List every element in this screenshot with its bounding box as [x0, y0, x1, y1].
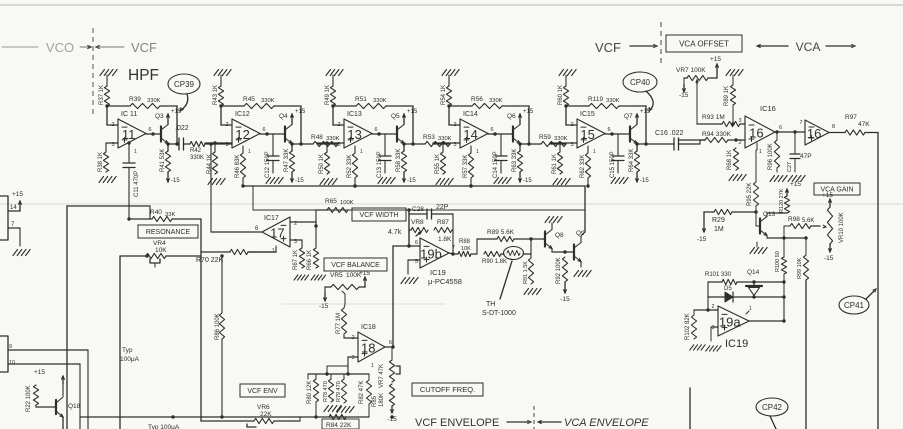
VCF ENV box: [240, 384, 285, 397]
wire feedback row right: [519, 105, 529, 107]
ground above R43: [214, 70, 231, 76]
ground below C27: [788, 176, 805, 182]
ellipse CP42: [756, 398, 788, 416]
pot VR7 47K: [389, 360, 394, 382]
ellipse CP40: [623, 72, 657, 92]
wire Q9 emitter to ground: [580, 262, 582, 268]
resistor R94 330K: [679, 139, 706, 141]
svg-text:1: 1: [749, 306, 752, 312]
svg-text:16: 16: [807, 126, 821, 141]
svg-text:R52 33K: R52 33K: [347, 155, 353, 178]
svg-text:-15: -15: [679, 92, 689, 99]
wire Q8 emitter row: [551, 249, 553, 253]
svg-text:11: 11: [122, 127, 136, 142]
svg-text:19a: 19a: [719, 315, 741, 330]
svg-text:5.6K: 5.6K: [802, 218, 814, 224]
svg-text:VR7 47K: VR7 47K: [379, 364, 385, 388]
svg-text:C16 .022: C16 .022: [655, 130, 684, 137]
svg-text:Q4: Q4: [279, 113, 288, 120]
vertical wire x120: [119, 256, 121, 429]
ground above R89b: [726, 70, 743, 76]
svg-text:CP42: CP42: [762, 403, 783, 412]
wire emitter node: [519, 144, 521, 152]
resistor R98 5.6K: [790, 223, 811, 228]
wire R85 to -15: [391, 406, 393, 413]
envelope dashed separator: [533, 406, 535, 429]
wire D5 row: [708, 296, 725, 298]
resistor R57 33K to bus: [470, 146, 472, 153]
ground pin7: [13, 250, 30, 256]
svg-text:12: 12: [235, 127, 249, 142]
resistor R44 1K: [214, 143, 216, 152]
resistor R58 33K: [401, 151, 406, 172]
wire feedback row: [107, 105, 130, 107]
arrow right of VCA: [826, 45, 852, 47]
capacitor C16 .022: [637, 143, 674, 145]
svg-text:R38 1K: R38 1K: [98, 152, 104, 172]
VCF/VCA dashed separator: [660, 22, 662, 66]
wire VR7 left to -15: [684, 77, 687, 79]
arrow CP39 to +15 node: [181, 94, 188, 110]
resistor R55 1K: [442, 143, 444, 152]
svg-text:R97: R97: [845, 114, 857, 121]
wire pin2: [708, 309, 718, 311]
CUTOFF FREQ box: [412, 383, 483, 396]
svg-text:33K: 33K: [165, 212, 175, 218]
wire left column: [707, 282, 709, 310]
wire envelope row: [80, 416, 369, 418]
wire feedback row: [221, 105, 244, 107]
svg-text:-15: -15: [407, 178, 416, 184]
svg-text:C14 150P: C14 150P: [493, 151, 499, 178]
resistor R38 1K: [106, 142, 118, 144]
ground IC19b: [401, 278, 418, 284]
wire emitter to R 330K: [520, 143, 541, 145]
arrow from boundary to VCF: [96, 45, 100, 48]
wire non-inverting input: [433, 142, 460, 144]
VCO/VCF dashed separator: [92, 28, 94, 117]
svg-text:330K: 330K: [438, 136, 452, 142]
wire net right: [530, 239, 532, 254]
svg-text:R119: R119: [588, 96, 603, 103]
svg-text:-15: -15: [171, 178, 180, 184]
svg-text:VR5: VR5: [330, 272, 343, 279]
resistor R22 100K: [33, 385, 38, 405]
IC box fragment (top): [0, 196, 8, 240]
wire op-amp output: [487, 133, 489, 136]
transistor Q13: [756, 225, 760, 227]
transistor Q9: [573, 245, 575, 260]
arrow into VCF boundary: [80, 46, 90, 48]
svg-text:13: 13: [347, 127, 361, 142]
svg-text:3: 3: [711, 325, 714, 331]
svg-text:22P: 22P: [436, 204, 449, 211]
vertical wire x201: [200, 219, 202, 421]
wire VR5 -15: [325, 286, 331, 288]
ground Q8 collector: [545, 217, 562, 223]
svg-text:9: 9: [9, 344, 12, 350]
svg-text:R40: R40: [150, 209, 162, 216]
svg-text:VCA OFFSET: VCA OFFSET: [679, 39, 729, 48]
resistor R85 180K: [389, 384, 394, 406]
wire emitter to R 330K: [404, 143, 425, 145]
svg-text:6: 6: [148, 127, 151, 133]
resistor R49 1K: [330, 86, 335, 106]
svg-text:R93 1M: R93 1M: [702, 114, 725, 121]
svg-text:R87: R87: [437, 219, 449, 226]
svg-text:VCA: VCA: [796, 40, 821, 54]
svg-text:C15 150P: C15 150P: [610, 151, 616, 178]
svg-text:6: 6: [607, 127, 610, 133]
svg-text:-15: -15: [697, 236, 707, 243]
resistor R67 1K: [299, 248, 304, 268]
wire pin3 to ground: [711, 326, 718, 328]
resistor R102 82K: [694, 309, 708, 311]
wire IC18 out: [385, 346, 393, 348]
scan fold segment: [282, 303, 445, 305]
arrow VCF to boundary: [630, 45, 654, 47]
svg-text:C11 470P: C11 470P: [134, 171, 140, 197]
svg-text:R88: R88: [459, 239, 471, 245]
resistor R47 33K: [289, 151, 294, 172]
resistor R48 330K: [313, 141, 338, 146]
wire inverting input: [448, 106, 450, 125]
resistor R46 83K to bus: [242, 146, 244, 153]
svg-text:R29: R29: [712, 217, 725, 224]
svg-text:16: 16: [749, 126, 763, 141]
svg-text:17: 17: [270, 226, 284, 241]
resistor R65 100K: [327, 207, 348, 212]
wire: [2, 46, 38, 48]
svg-text:100μA: 100μA: [120, 356, 140, 363]
wire emitter node: [636, 144, 638, 152]
svg-text:VR4: VR4: [153, 240, 166, 247]
svg-text:R47 33K: R47 33K: [284, 149, 290, 172]
op-amp IC19b: [420, 238, 449, 268]
svg-text:1: 1: [476, 149, 479, 155]
resistor R54 1K: [446, 86, 451, 106]
svg-text:-15: -15: [295, 178, 304, 184]
resistor R80 12K: [315, 374, 317, 379]
resistor R43 1K: [218, 86, 223, 106]
ground below R44: [208, 179, 225, 185]
wire ladder top row: [308, 373, 369, 375]
wire to next stage input: [317, 143, 338, 145]
ground above R37: [100, 70, 117, 76]
wire IC17 -in to node: [290, 221, 316, 223]
node R37/feedback: [105, 104, 108, 107]
wire R98 left: [784, 225, 790, 227]
op-amp IC18: [358, 332, 385, 362]
svg-text:6: 6: [374, 127, 377, 133]
svg-text:IC19: IC19: [430, 268, 446, 277]
svg-text:IC 11: IC 11: [121, 111, 137, 118]
svg-text:VCF ENVELOPE: VCF ENVELOPE: [415, 417, 499, 429]
wire op-amp output: [259, 133, 261, 136]
op-amp IC11: [118, 119, 146, 148]
capacitor C14 150P: [500, 134, 502, 156]
resistor R37 1K: [104, 86, 109, 106]
wire inverting input: [106, 106, 108, 125]
ellipse CP39: [168, 74, 200, 94]
wire +15 to Q18 collector: [62, 376, 64, 384]
op-amp IC16a: [745, 116, 775, 148]
svg-text:3: 3: [351, 355, 354, 361]
vertical wire bus to width net: [408, 210, 410, 246]
svg-text:VCF: VCF: [595, 40, 621, 55]
resistor R70 22K: [230, 249, 248, 254]
ground below C13: [378, 178, 395, 184]
wire inverting input: [332, 106, 334, 125]
scan top border line: [0, 4, 903, 6]
svg-text:+15: +15: [790, 181, 801, 188]
resistor R78 470: [330, 374, 332, 379]
svg-text:Typ 100μA: Typ 100μA: [148, 424, 180, 429]
svg-text:R68 1K: R68 1K: [727, 150, 733, 170]
svg-text:1.8K: 1.8K: [438, 236, 452, 243]
svg-text:VCO: VCO: [46, 40, 74, 55]
wire feedback drop: [645, 106, 647, 144]
wire x806 down: [805, 280, 807, 429]
ground below C12: [266, 178, 283, 184]
resistor R53 330K: [425, 141, 450, 146]
svg-text:C28: C28: [412, 206, 424, 213]
wire Q18 emitter down: [62, 417, 64, 429]
resistor R59 330K: [541, 141, 566, 146]
RESONANCE box: [138, 225, 198, 238]
svg-text:R120 27K: R120 27K: [779, 188, 785, 213]
svg-text:7: 7: [452, 245, 455, 251]
svg-text:2: 2: [711, 304, 714, 310]
svg-text:R96 100K: R96 100K: [768, 143, 774, 170]
ground above R54: [442, 70, 459, 76]
svg-text:1: 1: [371, 363, 374, 369]
VCF BALANCE box: [324, 258, 387, 271]
svg-text:-15: -15: [319, 303, 329, 310]
wire IC19a out: [749, 320, 784, 322]
resistor R66 1K: [315, 226, 317, 248]
svg-text:+15: +15: [822, 192, 833, 199]
svg-text:R60 1K: R60 1K: [558, 85, 564, 105]
resistor R88 10K: [458, 251, 471, 256]
wire Q9 collector to bus: [580, 236, 582, 243]
vertical wire x690: [689, 388, 691, 429]
node R49/feedback: [331, 104, 334, 107]
wire IC16a out: [775, 131, 805, 133]
svg-text:Q3: Q3: [155, 113, 164, 120]
svg-text:10: 10: [9, 360, 15, 366]
svg-text:IC14: IC14: [463, 111, 478, 118]
svg-text:R100 50: R100 50: [775, 251, 781, 272]
resistor R41 53K: [165, 151, 170, 172]
wire IC17 output up to signal node: [211, 231, 262, 233]
wire emitter to R 330K: [292, 143, 313, 145]
wire IC16b out: [829, 132, 845, 134]
svg-text:R77 1M: R77 1M: [336, 313, 342, 334]
wire op-amp output: [604, 133, 606, 136]
wire width net right: [452, 229, 453, 231]
wire feedback row right: [636, 105, 646, 107]
svg-text:330K: 330K: [373, 98, 387, 104]
svg-text:R65: R65: [325, 198, 337, 205]
pot VR10 100K: [827, 207, 832, 244]
wire R101 row: [708, 281, 722, 283]
wire R65 left to IC17: [316, 209, 327, 211]
wire VR5 +15: [359, 286, 365, 288]
svg-text:IC16: IC16: [760, 104, 776, 113]
svg-text:330K: 330K: [606, 98, 620, 104]
svg-text:R99 10K: R99 10K: [797, 257, 803, 279]
ground below C15: [611, 178, 628, 184]
resistor R89 1K (vca): [730, 85, 735, 105]
wire collector to +15: [636, 121, 638, 125]
resistor R95 22K: [755, 150, 757, 182]
svg-text:R62 33K: R62 33K: [580, 155, 586, 178]
resistor R60 1K: [563, 86, 568, 106]
ground below R96: [770, 176, 787, 182]
svg-text:R67 1K: R67 1K: [293, 250, 299, 270]
ground R102: [690, 345, 705, 350]
svg-text:22K: 22K: [260, 411, 272, 418]
wire VR7 wiper down: [696, 84, 698, 124]
svg-text:3: 3: [738, 118, 741, 124]
svg-text:R64 33K: R64 33K: [629, 149, 635, 172]
capacitor C28 22P: [409, 213, 427, 215]
wire collector to +15: [167, 121, 169, 125]
svg-text:VCF WIDTH: VCF WIDTH: [360, 212, 399, 219]
wire to next stage input: [550, 143, 566, 145]
VCA OFFSET box: [666, 35, 742, 52]
svg-text:R61 1K: R61 1K: [552, 154, 558, 174]
svg-text:R37 1K: R37 1K: [99, 85, 105, 105]
ground below R91: [524, 289, 541, 295]
wire feedback row: [449, 105, 472, 107]
svg-text:IC19: IC19: [725, 338, 748, 350]
svg-text:14: 14: [463, 127, 477, 142]
wire IC19b pin5 to ground: [408, 259, 420, 261]
capacitor C11 470P: [128, 143, 130, 162]
svg-text:IC12: IC12: [235, 111, 250, 118]
svg-text:+15: +15: [359, 270, 370, 277]
pin 1 tick: [756, 143, 758, 150]
resistor R50 1K: [326, 143, 328, 152]
svg-text:R84 22K: R84 22K: [326, 422, 352, 429]
node R54/feedback: [447, 104, 450, 107]
svg-text:R59: R59: [539, 134, 551, 141]
wire feedback drop: [300, 106, 302, 144]
resistor R120 27K: [784, 196, 789, 213]
transistor Q3: [160, 127, 162, 142]
wire inverting input: [220, 106, 222, 125]
wire VR10 -15: [829, 244, 831, 252]
svg-text:+15: +15: [710, 56, 721, 63]
VCF WIDTH box: [352, 208, 406, 221]
op-amp IC13: [344, 119, 372, 148]
wire Q13 emitter row: [766, 236, 768, 239]
svg-text:2: 2: [453, 122, 456, 128]
svg-text:R91 1.5K: R91 1.5K: [523, 261, 529, 284]
capacitor C13 150P: [384, 134, 386, 156]
svg-text:R51: R51: [355, 96, 367, 103]
transistor Q4: [284, 127, 286, 142]
svg-text:VR7 100K: VR7 100K: [676, 67, 706, 74]
svg-text:2: 2: [351, 335, 354, 341]
svg-text:VCF ENV: VCF ENV: [247, 388, 278, 395]
thermistor TH SDT-1000: [501, 253, 504, 255]
svg-text:C13 150P: C13 150P: [377, 151, 383, 178]
capacitor .022: [178, 138, 180, 150]
capacitor C12 150P: [272, 134, 274, 156]
wire R77 to IC18 pin2: [343, 334, 345, 338]
wire feedback drop: [528, 106, 530, 144]
arrow from boundary: [538, 420, 542, 423]
wire to -15: [403, 172, 405, 182]
svg-text:R39: R39: [129, 96, 141, 103]
svg-text:R53: R53: [423, 134, 435, 141]
resistor R89 5.6K: [477, 238, 497, 240]
wire input to IC19b: [409, 245, 420, 247]
thermistor callout: [500, 261, 512, 299]
svg-text:1: 1: [360, 149, 363, 155]
wire pin10 row: [8, 363, 80, 365]
resistor R64 33K: [634, 151, 639, 172]
ellipse CP41: [839, 296, 869, 314]
resistor R87 1.8K: [434, 227, 452, 232]
svg-text:1: 1: [593, 149, 596, 155]
svg-text:IC18: IC18: [361, 324, 376, 331]
svg-text:+15: +15: [12, 191, 23, 198]
svg-text:R98: R98: [788, 216, 800, 223]
svg-text:R57 33K: R57 33K: [463, 155, 469, 178]
wire collector to +15: [403, 121, 405, 125]
resistor R40 33K: [152, 216, 172, 221]
svg-text:Q14: Q14: [747, 269, 760, 276]
svg-text:2: 2: [225, 122, 228, 128]
ground below R50: [320, 179, 337, 185]
svg-text:7: 7: [799, 120, 802, 126]
capacitor C27 47P: [794, 132, 796, 154]
wire IC18 +in: [348, 356, 358, 358]
svg-text:330K: 330K: [261, 98, 275, 104]
arrow to envelope boundary: [507, 421, 528, 423]
svg-text:VCF BALANCE: VCF BALANCE: [331, 262, 380, 269]
svg-text:RESONANCE: RESONANCE: [146, 229, 191, 236]
svg-text:VCA ENVELOPE: VCA ENVELOPE: [564, 417, 649, 429]
wire bus right to Q9 collector: [584, 186, 586, 232]
lower horizontal wire: [253, 209, 585, 211]
ground mid: [750, 248, 767, 254]
svg-text:R90 1.8K: R90 1.8K: [482, 259, 507, 265]
svg-text:R89 1K: R89 1K: [724, 86, 730, 106]
transistor Q7: [629, 127, 631, 142]
wire emitter to coupling cap: [168, 143, 179, 145]
resistor R96 100K: [776, 132, 778, 140]
resistor R119 330K: [589, 103, 619, 108]
svg-text:R22 100K: R22 100K: [26, 385, 32, 412]
transistor Q18: [35, 405, 37, 407]
svg-text:6: 6: [779, 125, 782, 131]
svg-text:180K: 180K: [379, 393, 385, 407]
svg-text:μ-PC4558: μ-PC4558: [428, 277, 462, 286]
svg-text:330K: 330K: [489, 98, 503, 104]
arrow left of VCA: [757, 44, 761, 47]
svg-text:R42: R42: [190, 148, 202, 154]
svg-text:2: 2: [570, 122, 573, 128]
svg-text:Q8: Q8: [555, 232, 564, 239]
wire IC17 pin1 row: [275, 246, 277, 252]
svg-text:R86 100K: R86 100K: [215, 313, 221, 340]
svg-text:Q18: Q18: [68, 403, 81, 410]
